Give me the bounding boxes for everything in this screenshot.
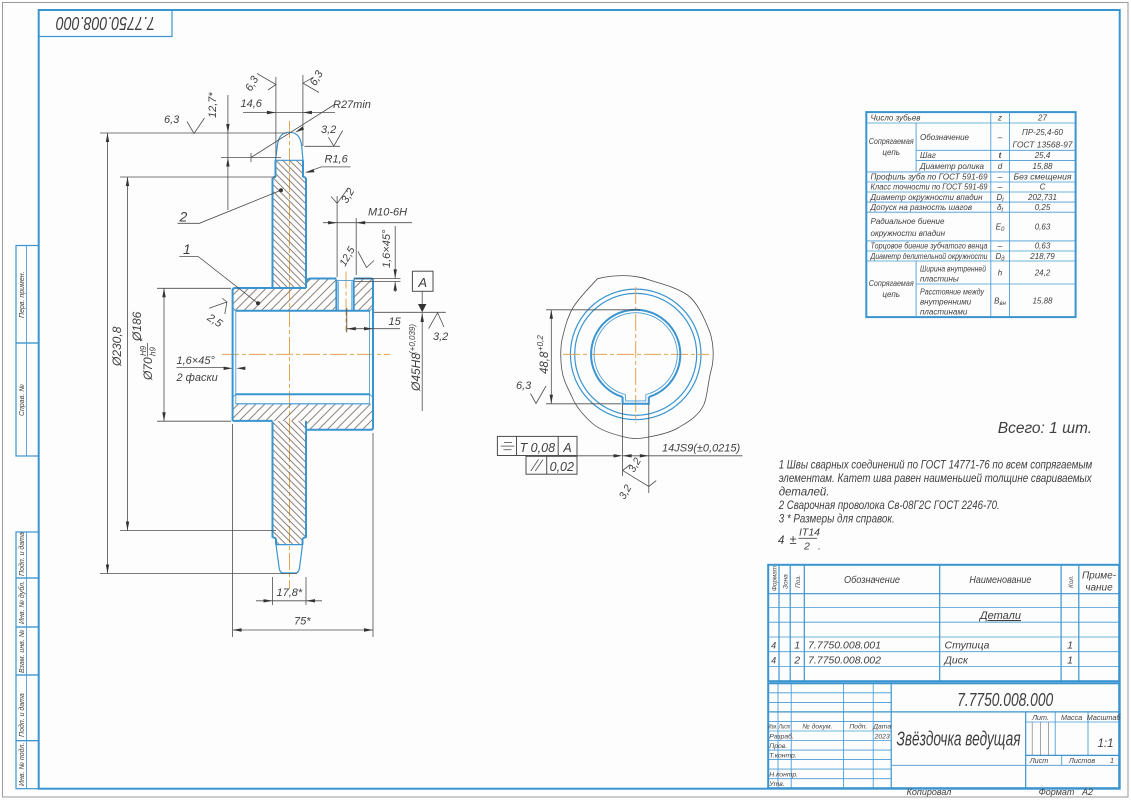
svg-text:218,79: 218,79	[1029, 252, 1055, 261]
svg-text:Лист: Лист	[1029, 756, 1049, 765]
svg-text:2023: 2023	[874, 733, 890, 740]
left column box Инв. № подл.	[16, 741, 39, 789]
hub bottom 70 left	[233, 420, 273, 422]
R27min leader	[251, 99, 371, 158]
svg-text:1,6×45°: 1,6×45°	[177, 355, 216, 367]
svg-text:1 Швы сварных соединений по ГО: 1 Швы сварных соединений по ГОСТ 14771-7…	[779, 459, 1093, 471]
svg-text:R27min: R27min	[333, 99, 371, 111]
svg-text:Профиль зуба по ГОСТ 591-69: Профиль зуба по ГОСТ 591-69	[871, 173, 989, 182]
svg-text:Наименование: Наименование	[969, 575, 1031, 586]
svg-text:(+0,039): (+0,039)	[408, 324, 417, 354]
svg-text:H9: H9	[139, 345, 148, 356]
weld fillet at disk step	[306, 279, 312, 289]
svg-text:внутренними: внутренними	[920, 298, 972, 307]
roughness 3.2 bore	[429, 313, 449, 343]
bore top line	[236, 310, 370, 312]
svg-text:7.7750.008.002: 7.7750.008.002	[808, 654, 881, 666]
dim 14.6	[241, 75, 336, 156]
hub right face	[372, 281, 374, 428]
left column box Справ. №	[16, 343, 39, 456]
svg-text:Звёздочка ведущая: Звёздочка ведущая	[897, 729, 1021, 751]
keyway floor line	[236, 403, 370, 405]
keyway slot	[623, 397, 649, 404]
svg-text:Без смещения: Без смещения	[1014, 173, 1073, 182]
left column box Взам. инв. №	[16, 627, 39, 675]
R1.6 leader	[305, 154, 351, 173]
svg-text:цепь: цепь	[882, 290, 900, 299]
break outline blob	[561, 276, 713, 439]
svg-text:24,2: 24,2	[1034, 269, 1051, 278]
svg-text:A: A	[562, 441, 571, 455]
svg-text:4: 4	[771, 641, 776, 651]
hub bottom 80	[306, 428, 373, 430]
roughness 6.3 tooth right	[303, 68, 326, 93]
svg-text:2: 2	[803, 541, 810, 553]
left column box Перв. примен.	[16, 246, 39, 344]
svg-text:3 * Размеры для справок.: 3 * Размеры для справок.	[779, 513, 895, 525]
bore chamfer verticals	[236, 311, 370, 404]
svg-text:Подп. и дата: Подп. и дата	[18, 532, 26, 576]
lower tooth neck	[276, 539, 303, 545]
svg-text:–: –	[997, 183, 1003, 192]
svg-text:Сопрягаемая: Сопрягаемая	[869, 137, 915, 146]
svg-text:2 фаски: 2 фаски	[176, 372, 218, 384]
svg-text:Лист: Лист	[778, 725, 790, 731]
svg-text:A: A	[417, 275, 427, 290]
svg-text:14JS9(±0,0215): 14JS9(±0,0215)	[662, 443, 741, 455]
svg-text:27: 27	[1037, 114, 1047, 123]
svg-text:M10-6H: M10-6H	[368, 207, 407, 219]
svg-text:Т.контр.: Т.контр.	[769, 753, 797, 760]
svg-text:z: z	[997, 114, 1002, 123]
svg-text:T 0,08: T 0,08	[520, 441, 555, 455]
svg-text:A2: A2	[1081, 787, 1093, 797]
left column box Инв. № дубл.	[16, 578, 39, 627]
svg-text:Обозначение: Обозначение	[920, 133, 970, 142]
svg-text:+0,2: +0,2	[536, 335, 545, 351]
leader from frame to keyway	[577, 454, 623, 457]
hub top 80 line	[312, 279, 374, 281]
svg-text:7.7750.008.000: 7.7750.008.000	[56, 13, 155, 33]
svg-text:25,4: 25,4	[1034, 151, 1051, 160]
hub hatch left+mid band	[233, 279, 337, 311]
svg-text:±: ±	[790, 532, 797, 547]
M10 hole walls	[336, 280, 353, 311]
svg-text:14,6: 14,6	[241, 98, 263, 110]
svg-text:4: 4	[771, 655, 776, 665]
svg-text:Кол.: Кол.	[1068, 575, 1075, 588]
svg-text:Формат: Формат	[1039, 787, 1075, 797]
svg-text:202,731: 202,731	[1027, 193, 1057, 202]
svg-text:R1,6: R1,6	[325, 154, 349, 166]
svg-text:пластинами: пластинами	[920, 308, 968, 317]
left column box Подп. и дата (lower)	[16, 675, 39, 741]
svg-text:15: 15	[389, 316, 402, 328]
dim 17.8	[256, 577, 322, 605]
svg-text:Н.контр.: Н.контр.	[769, 772, 798, 779]
svg-text:15,88: 15,88	[1032, 297, 1053, 306]
svg-text:d: d	[998, 162, 1003, 171]
svg-text:h9: h9	[149, 347, 158, 356]
svg-text:Ø230,8: Ø230,8	[110, 326, 124, 367]
svg-text:Пров.: Пров.	[769, 743, 787, 750]
bore bottom line	[236, 393, 370, 395]
dim 75	[233, 424, 373, 637]
svg-text:2: 2	[179, 209, 188, 225]
svg-text:2: 2	[793, 654, 800, 666]
lower tooth cap line	[276, 544, 303, 546]
centerlines	[563, 353, 709, 355]
svg-text:0,63: 0,63	[1035, 242, 1051, 251]
svg-text:–: –	[997, 133, 1003, 142]
upper tooth sides	[273, 178, 307, 288]
svg-text:7.7750.008.000: 7.7750.008.000	[957, 690, 1053, 710]
svg-text:Справ. №: Справ. №	[19, 384, 26, 416]
svg-text:6,3: 6,3	[516, 380, 532, 392]
svg-text:Взам. инв. №: Взам. инв. №	[19, 629, 26, 673]
svg-text:h: h	[998, 269, 1003, 278]
svg-text:Ступица: Ступица	[945, 640, 990, 652]
svg-text:Всего: 1 шт.: Всего: 1 шт.	[998, 420, 1092, 437]
svg-text:Сопрягаемая: Сопрягаемая	[869, 279, 915, 288]
svg-text:0,63: 0,63	[1035, 223, 1051, 232]
left column box Подп. и дата (upper)	[16, 532, 39, 578]
svg-text:№ докум.: № докум.	[802, 723, 832, 731]
roughness 6.3 left	[164, 114, 205, 134]
dim 12.7	[207, 92, 281, 210]
svg-text:Копировал: Копировал	[907, 787, 952, 797]
svg-text:Масса: Масса	[1061, 713, 1082, 722]
svg-text:3,2: 3,2	[321, 124, 336, 136]
dim 1.6x45 2 фаски	[176, 355, 246, 384]
svg-text:4: 4	[778, 535, 784, 547]
svg-text:Расстояние между: Расстояние между	[920, 288, 985, 297]
svg-text:Диаметр окружности впадин: Диаметр окружности впадин	[870, 193, 984, 202]
svg-text:Перв. примен.: Перв. примен.	[19, 271, 26, 318]
tooth centerline	[289, 121, 291, 589]
roughness 3.2 tooth cap	[305, 124, 343, 146]
svg-text:2 Сварочная проволока Св-08Г2С: 2 Сварочная проволока Св-08Г2С ГОСТ 2246…	[778, 500, 1000, 512]
svg-text:1: 1	[1110, 756, 1114, 765]
svg-text:t: t	[999, 151, 1002, 160]
dim d230.8	[100, 133, 297, 574]
svg-text:.: .	[818, 541, 821, 553]
hub hatch bottom band	[233, 404, 373, 430]
svg-text:окружности впадин: окружности впадин	[871, 229, 946, 238]
svg-text:пластины: пластины	[920, 275, 959, 284]
svg-text:элементам. Катет шва равен наи: элементам. Катет шва равен наименьшей то…	[779, 473, 1093, 485]
svg-text:0,02: 0,02	[550, 460, 574, 474]
svg-text:Инв. № подл.: Инв. № подл.	[18, 743, 26, 786]
R27 centre cross	[250, 153, 252, 162]
pos label 1	[179, 241, 260, 305]
svg-text:С: С	[1040, 183, 1046, 192]
svg-text:Подп. и дата: Подп. и дата	[18, 693, 26, 737]
svg-text:Ø70: Ø70	[141, 357, 155, 381]
lower tooth sides	[273, 422, 307, 539]
svg-text:48,8: 48,8	[539, 351, 551, 374]
dim 15	[347, 308, 402, 333]
svg-text:деталей.: деталей.	[779, 486, 830, 498]
pos label 2	[178, 188, 284, 224]
roughness 12.5 M10	[337, 245, 374, 269]
svg-text:Лит.: Лит.	[1031, 713, 1049, 722]
svg-text:–: –	[997, 242, 1003, 251]
roughness 3.2 keyway side right	[617, 481, 656, 502]
svg-text:Детали: Детали	[978, 610, 1021, 622]
dim M10-6H	[323, 196, 412, 277]
svg-text:Листов: Листов	[1068, 756, 1095, 765]
svg-text:7.7750.008.001: 7.7750.008.001	[808, 640, 881, 652]
svg-text:Шаг: Шаг	[920, 151, 936, 160]
svg-text:Диаметр делительной окружности: Диаметр делительной окружности	[870, 252, 988, 261]
dim 1.6x45 M10 chamfer	[355, 226, 401, 292]
axis centerline	[222, 353, 390, 355]
svg-text:Ширина внутренней: Ширина внутренней	[920, 265, 986, 274]
hub hatch right of M10 hole	[354, 279, 373, 311]
svg-text:1,6×45°: 1,6×45°	[381, 229, 393, 268]
dim d70 H9/h9	[138, 288, 231, 421]
svg-text:Утв.: Утв.	[768, 781, 785, 788]
bore chamfers	[233, 308, 373, 398]
svg-text:Дата: Дата	[872, 724, 891, 731]
datum A flag	[374, 271, 446, 312]
svg-text:1: 1	[1067, 640, 1073, 652]
M10 thread minor lines	[336, 280, 353, 310]
svg-text:0,25: 0,25	[1035, 203, 1051, 212]
dim d45H8	[408, 313, 424, 411]
svg-text:75*: 75*	[294, 616, 311, 628]
svg-text:Число зубьев: Число зубьев	[871, 113, 921, 122]
svg-text:Зона: Зона	[783, 574, 790, 589]
roughness 6.3 keyway view	[516, 380, 546, 404]
hub step at disk bottom	[305, 421, 307, 430]
circle d70 outer	[570, 289, 701, 420]
svg-text:Радиальное биение: Радиальное биение	[871, 217, 946, 226]
svg-text:Ø45H8: Ø45H8	[409, 353, 423, 392]
svg-text:Торцовое биение зубчатого венц: Торцовое биение зубчатого венца	[871, 242, 988, 251]
upper tooth cap line	[276, 159, 304, 161]
bore d45 with keyway	[591, 310, 680, 397]
svg-text:12,7*: 12,7*	[207, 92, 219, 118]
svg-text:цепь: цепь	[882, 148, 900, 157]
dim d186	[120, 177, 276, 531]
roughness 6.3 tooth left	[243, 73, 276, 93]
roughness 2.5 hub left	[204, 298, 227, 330]
svg-text:Инв. № дубл.: Инв. № дубл.	[18, 581, 26, 624]
svg-text:Диск: Диск	[944, 654, 969, 666]
dim 48.8	[536, 310, 640, 404]
svg-text:Изм.: Изм.	[768, 725, 777, 731]
M10 hole centerline	[345, 272, 347, 332]
svg-text:ПР-25,4-60: ПР-25,4-60	[1022, 128, 1063, 137]
svg-text:Разраб.: Разраб.	[769, 732, 794, 740]
svg-text:–: –	[997, 173, 1003, 182]
svg-text:1: 1	[1067, 654, 1073, 666]
svg-text:Диаметр ролика: Диаметр ролика	[919, 162, 985, 171]
roughness 3.2 keyway side left	[623, 456, 649, 487]
svg-text:чание: чание	[1085, 583, 1113, 594]
svg-text:17,8*: 17,8*	[277, 587, 303, 599]
svg-text:Формат: Формат	[772, 565, 779, 591]
svg-text:Подп.: Подп.	[849, 723, 867, 731]
tolerance frame symmetry	[497, 436, 577, 455]
svg-text:IT14: IT14	[799, 527, 820, 539]
svg-text:Поз.: Поз.	[795, 575, 802, 588]
svg-text:Класс точности по ГОСТ 591-69: Класс точности по ГОСТ 591-69	[871, 183, 989, 192]
upper tooth tip dome	[276, 132, 304, 160]
upper tooth neck sides	[273, 160, 307, 178]
svg-text:Приме-: Приме-	[1082, 571, 1117, 582]
hub top 70 line	[233, 288, 306, 291]
notes paragraph	[778, 459, 1093, 552]
svg-text:ГОСТ 13568-97: ГОСТ 13568-97	[1013, 140, 1074, 149]
upper tooth hatch (disk)	[273, 160, 307, 288]
svg-text:Ø186: Ø186	[130, 311, 144, 342]
dim 14JS9	[623, 404, 743, 493]
lower tooth tip	[276, 545, 303, 573]
svg-text:Обозначение: Обозначение	[844, 574, 900, 586]
svg-text:1:1: 1:1	[1098, 738, 1114, 750]
circle inner rim	[575, 293, 697, 415]
svg-text:15,88: 15,88	[1032, 162, 1053, 171]
svg-text:3,2: 3,2	[433, 331, 448, 343]
svg-text:6,3: 6,3	[164, 114, 180, 126]
bore chamfer circle with keyway	[594, 313, 677, 395]
top-left stamp box	[39, 10, 172, 37]
roughness 3.2 M10	[331, 186, 357, 205]
svg-text:Масштаб: Масштаб	[1087, 713, 1122, 722]
tolerance frame parallelism	[526, 456, 577, 474]
svg-text:1: 1	[794, 640, 800, 652]
lower tooth hatch (disk)	[273, 421, 307, 545]
svg-text:Допуск на разность шагов: Допуск на разность шагов	[870, 203, 973, 212]
svg-text:1: 1	[183, 241, 191, 257]
hub left face	[232, 289, 234, 421]
